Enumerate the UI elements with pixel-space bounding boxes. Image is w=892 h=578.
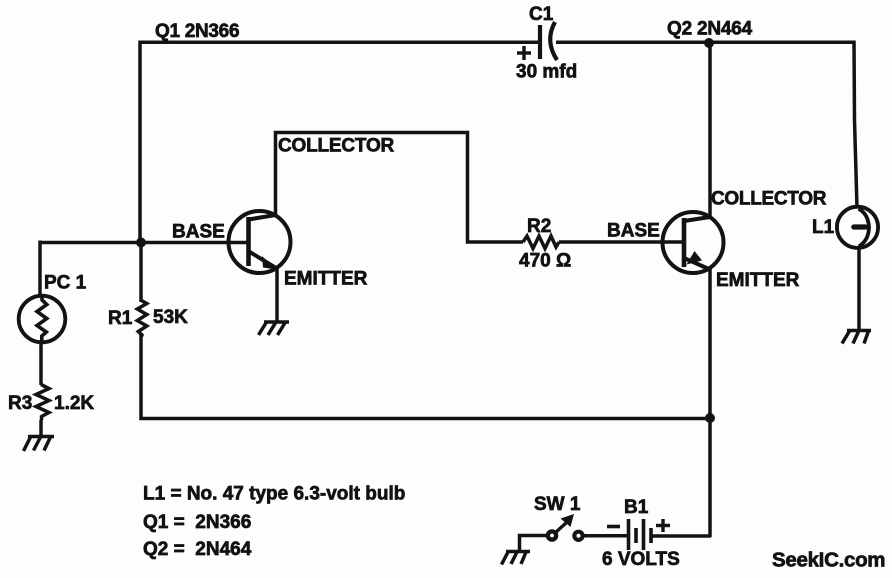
resistor R2 [523,236,559,249]
node base junction Q1 [136,238,146,248]
wire Q2 emitter [708,269,712,537]
svg-text:1.2K: 1.2K [54,393,94,414]
svg-text:L1: L1 [812,217,835,238]
wire base branch left [40,241,141,245]
svg-text:6 VOLTS: 6 VOLTS [602,549,680,570]
transistor Q1 [229,211,291,273]
wire Q1 collector [276,133,524,243]
svg-text:SeekIC.com: SeekIC.com [772,549,885,572]
svg-text:B1: B1 [624,497,649,518]
lamp L1 [837,207,878,248]
svg-text:SW 1: SW 1 [534,494,581,515]
svg-text:COLLECTOR: COLLECTOR [278,136,395,157]
switch SW1 [548,514,583,540]
wire R3 to ground [39,420,43,437]
svg-text:EMITTER: EMITTER [716,270,800,291]
svg-text:PC 1: PC 1 [44,273,87,294]
resistor R3 [36,385,49,421]
wire SW1 ground stub [520,536,548,552]
svg-text:Q2 2N464: Q2 2N464 [667,19,753,40]
ground under R3 [24,437,55,452]
svg-text:R3: R3 [8,393,32,414]
label B1 minus [607,525,620,529]
svg-text:COLLECTOR: COLLECTOR [711,189,827,210]
svg-text:EMITTER: EMITTER [284,269,368,290]
wire SW1 to B1 [583,534,628,538]
wire top rail left [139,41,539,45]
resistor R1 [137,301,147,337]
battery B1 [629,519,652,550]
svg-text:BASE: BASE [607,221,660,242]
wire Q1 emitter to ground [275,269,279,322]
wire top rail right [556,41,856,45]
wire bottom rail [140,417,712,421]
node collector junction Q2 [704,38,714,48]
ground under Q1 emitter [259,322,290,335]
photocell PC1 [19,296,66,343]
svg-text:53K: 53K [153,307,188,328]
label C1 plus [517,46,531,60]
wire PC1 top lead [38,241,42,298]
wire top right vertical [854,41,857,209]
svg-text:BASE: BASE [172,222,225,243]
svg-text:Q1 2N366: Q1 2N366 [155,21,239,42]
capacitor C1 [540,22,557,60]
wire Q2 collector [708,42,712,218]
svg-text:Q2 = 2N464: Q2 = 2N464 [143,539,252,560]
wire R1 to bottom rail [139,334,143,420]
wire left vertical [138,41,142,244]
wire junction to R1 [139,242,143,302]
wire PC1 to R3 [39,341,43,385]
ground at SW1 [502,552,531,565]
node emitter junction Q2 [705,413,715,423]
svg-text:C1: C1 [529,4,554,25]
svg-text:L1 = No. 47 type 6.3-volt bulb: L1 = No. 47 type 6.3-volt bulb [143,484,405,505]
svg-text:R2: R2 [527,216,551,237]
svg-text:Q1 = 2N366: Q1 = 2N366 [143,512,251,533]
svg-text:470 Ω: 470 Ω [519,251,571,272]
wire base to Q1 [141,241,248,245]
wire R2 to Q2 base [559,240,683,244]
svg-text:30 mfd: 30 mfd [516,62,577,83]
label B1 plus [656,519,670,532]
wire L1 to ground [857,247,861,331]
ground under L1 [842,331,871,344]
transistor Q2 [663,212,724,273]
svg-text:R1: R1 [108,308,133,329]
wire B1 to emitter line [651,534,711,538]
